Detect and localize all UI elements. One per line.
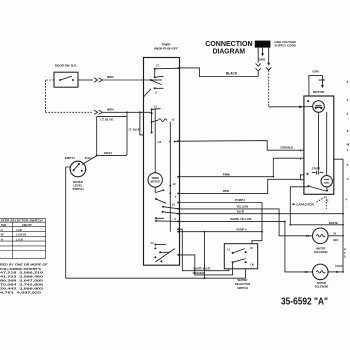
wire pump upper	[180, 203, 263, 232]
svg-text:GRAY: GRAY	[104, 151, 112, 155]
svg-text:PUMP 2: PUMP 2	[235, 198, 245, 202]
svg-text:WHITE: WHITE	[329, 221, 338, 225]
svg-text:BLUE: BLUE	[237, 209, 245, 213]
svg-text:YELLOW: YELLOW	[237, 205, 249, 209]
wire riser pump to bottom bus	[204, 232, 206, 279]
water solenoid L2 (cold)	[313, 264, 329, 280]
wire pump lower from timer to selector	[180, 232, 263, 244]
svg-text:BRN: BRN	[107, 107, 114, 111]
svg-text:CIRCUIT: CIRCUIT	[22, 224, 32, 227]
motor start contact lever	[307, 185, 309, 187]
svg-text:MOTOR: MOTOR	[151, 180, 160, 183]
svg-text:3: 3	[347, 98, 349, 102]
svg-text:21: 21	[336, 271, 339, 274]
plug lead right with arrow and chevrons	[268, 48, 270, 64]
svg-text:RED: RED	[223, 189, 230, 193]
clipped right edge glyphs	[345, 80, 349, 202]
svg-text:4,781 4,097,925: 4,781 4,097,925	[0, 290, 41, 294]
dashed return loop from door switch	[45, 79, 54, 81]
svg-text:ATER SELECTOR SWITCH: ATER SELECTOR SWITCH	[1, 220, 43, 223]
wire PINK	[180, 176, 274, 178]
svg-text:L1-LN: L1-LN	[16, 238, 23, 241]
svg-text:H: H	[344, 248, 346, 251]
motor winding circle	[313, 101, 325, 113]
svg-text:L1: L1	[228, 248, 232, 251]
svg-text:12: 12	[173, 183, 176, 186]
wire WHITE-YELLOW to solenoid 2	[180, 221, 313, 272]
svg-text:WHITE-YELLOW: WHITE-YELLOW	[230, 217, 252, 221]
svg-text:8: 8	[347, 129, 349, 133]
timer internal contacts lower	[155, 198, 157, 200]
bus annotation chars	[344, 248, 346, 259]
wire GRN with ground arrow to motor	[309, 75, 323, 96]
capacitor C1 circle	[321, 176, 332, 187]
wire riser brn to gray	[126, 112, 128, 155]
svg-text:H2O: H2O	[333, 239, 338, 242]
wire pink riser to motor terminal 3	[273, 158, 304, 177]
svg-text:SWITCH: SWITCH	[72, 187, 83, 191]
drawing number	[281, 297, 328, 308]
svg-text:GRD: GRD	[259, 57, 267, 61]
svg-text:5: 5	[347, 163, 349, 167]
wire RED to motor	[180, 179, 301, 193]
node at water level riser	[96, 116, 98, 155]
heater coil symbol in timer	[159, 119, 167, 122]
svg-text:KNOB-PUSH OFF: KNOB-PUSH OFF	[154, 46, 178, 50]
wire start switch to white bus	[290, 187, 308, 225]
water solenoid L1 (hot)	[313, 228, 329, 244]
plug lead left with connector chevrons	[257, 48, 259, 63]
svg-text:9: 9	[174, 218, 176, 221]
timer terminal dots on right edge	[177, 67, 179, 69]
line voltage supply cord plug P1	[255, 41, 271, 48]
svg-text:2: 2	[327, 199, 329, 202]
svg-text:L1: L1	[154, 106, 158, 109]
svg-text:4: 4	[345, 198, 347, 202]
wire BLACK from plug to timer	[180, 68, 259, 77]
timer internal contacts middle	[154, 106, 158, 109]
wire GRN-BLK from timer to motor	[175, 141, 304, 151]
timer internal contacts bottom	[151, 243, 154, 245]
svg-text:O: O	[344, 256, 346, 259]
svg-text:SOLENOID: SOLENOID	[315, 285, 329, 289]
svg-text:LT. BLUE: LT. BLUE	[100, 118, 113, 122]
timer motor M2	[148, 173, 162, 187]
svg-text:TU: TU	[151, 243, 154, 245]
svg-text:x2: x2	[172, 118, 175, 121]
svg-text:MOTOR: MOTOR	[313, 90, 325, 94]
svg-text:SUPPLY CORD: SUPPLY CORD	[275, 43, 297, 47]
wire BRN lower to timer	[94, 110, 98, 114]
svg-text:24: 24	[333, 233, 336, 236]
wire lt.blue branch into timer	[140, 112, 144, 135]
svg-text:PINK: PINK	[223, 172, 231, 176]
wire orange from timer to selector	[180, 255, 233, 275]
svg-text:FULL: FULL	[85, 156, 93, 160]
svg-text:10: 10	[172, 203, 175, 206]
wire BLUE bus to solenoid right side	[180, 213, 344, 215]
svg-text:CAPACITOR: CAPACITOR	[296, 203, 314, 207]
svg-text:COLD: COLD	[335, 265, 342, 268]
svg-text:SWITCH: SWITCH	[237, 286, 248, 290]
svg-text:(14: (14	[158, 141, 162, 144]
svg-text:C: C	[347, 177, 350, 181]
svg-text:GRD: GRD	[319, 78, 325, 82]
wire LT.BLUE	[97, 115, 127, 117]
door switch S1	[55, 64, 78, 68]
timer T1 box	[154, 42, 178, 50]
svg-text:LT: LT	[156, 65, 159, 68]
motor M1 box	[304, 96, 334, 194]
title CONNECTION DIAGRAM	[205, 39, 252, 56]
motor start switch	[312, 166, 321, 170]
capacitor pointer label	[293, 203, 296, 205]
svg-text:2: 2	[344, 252, 346, 255]
svg-text:PUMP 2: PUMP 2	[237, 227, 247, 231]
svg-text:GRN-BLK: GRN-BLK	[280, 145, 293, 149]
water selector switch S3	[224, 244, 257, 269]
svg-text:EMPTY: EMPTY	[65, 156, 75, 160]
svg-text:5: 5	[155, 91, 157, 94]
svg-text:L1-M+LN: L1-M+LN	[16, 234, 26, 237]
ground arrow from plug	[262, 48, 264, 54]
svg-text:SOLENOID: SOLENOID	[314, 250, 328, 254]
svg-text:35-6592 "A": 35-6592 "A"	[281, 297, 328, 308]
patent notice text	[0, 263, 48, 295]
svg-text:1: 1	[347, 148, 349, 152]
svg-text:DOOR SW. N.O.: DOOR SW. N.O.	[55, 64, 78, 68]
svg-text:-C: -C	[0, 229, 3, 232]
svg-text:WATER: WATER	[316, 246, 325, 250]
svg-text:M: M	[347, 143, 350, 147]
svg-text:LN: LN	[250, 263, 254, 266]
svg-text:5: 5	[347, 112, 349, 116]
svg-text:POS: POS	[1, 224, 6, 227]
right bus wire	[334, 159, 343, 272]
wire WHITE	[290, 224, 343, 226]
motor internal wires	[318, 112, 320, 170]
svg-text:BRN: BRN	[107, 75, 114, 79]
selector table bottom left	[0, 219, 46, 259]
timer internal contacts top	[156, 65, 159, 68]
wire GRAY	[97, 154, 127, 156]
water level switch S2	[65, 156, 75, 160]
svg-text:BLACK: BLACK	[226, 71, 238, 75]
wire white-blue from timer to selector	[180, 229, 229, 271]
wire supply to motor run terminal	[269, 106, 304, 108]
svg-text:2: 2	[347, 80, 349, 84]
svg-text:DIAGRAM: DIAGRAM	[213, 47, 246, 56]
svg-text:START: START	[312, 166, 321, 170]
svg-text:WATER: WATER	[317, 281, 326, 285]
svg-text:GRN: GRN	[312, 70, 318, 74]
svg-text:ORANGE: ORANGE	[193, 271, 205, 275]
svg-text:WHITE-BLUE: WHITE-BLUE	[193, 266, 210, 270]
wire YELLOW to solenoid 1	[180, 209, 313, 236]
wire BRN door switch to timer	[78, 79, 93, 81]
svg-text:M: M	[250, 247, 252, 250]
svg-text:-H: -H	[0, 238, 3, 241]
wire water level to bottom bus	[66, 167, 246, 278]
svg-text:L1-M: L1-M	[16, 229, 22, 232]
svg-text:LT. BLUE: LT. BLUE	[129, 127, 141, 131]
svg-text:7: 7	[175, 196, 177, 199]
